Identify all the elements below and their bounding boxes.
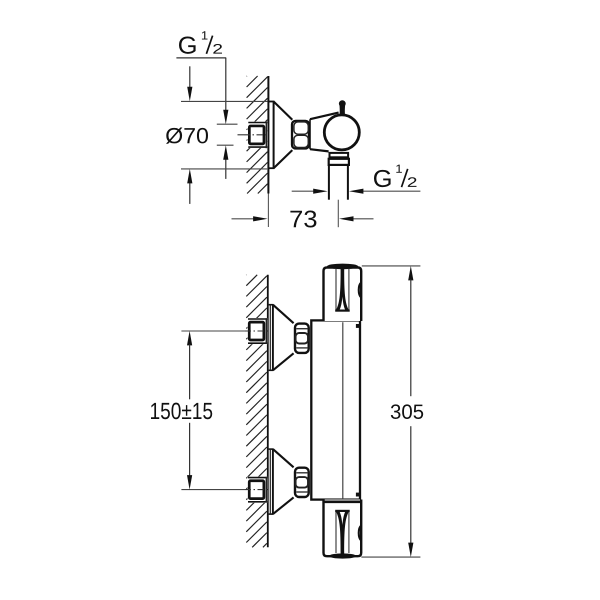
flange cone lines	[274, 102, 293, 120]
bottom cap side arc	[359, 526, 362, 541]
bottom cap lens	[329, 553, 356, 558]
shower outlet nut	[330, 153, 349, 157]
diameter 70 extension lines	[181, 100, 268, 102]
150 dimension extension/centrelines	[181, 330, 245, 332]
73 dimension	[232, 218, 255, 220]
top cap funnel groove	[336, 268, 349, 310]
dimension text 305	[391, 404, 423, 419]
top cap (handle)	[324, 268, 362, 322]
dimension text diameter 70	[166, 128, 208, 144]
hex nut (top view)	[292, 121, 309, 149]
lower wall union cylinder	[248, 477, 267, 479]
bar centre highlight line	[342, 322, 344, 498]
outlet G1/2 dimension arrows	[292, 190, 314, 192]
305 dimension line	[408, 266, 413, 281]
dimension label G 1/2 (outlet, right)	[374, 170, 391, 187]
nut bottom extension line	[217, 144, 234, 146]
bottom cap (handle)	[324, 500, 362, 557]
150 dimension line	[187, 331, 192, 346]
top cap lens	[327, 264, 358, 270]
wall union white mask	[248, 122, 268, 149]
wall hatching (top view)	[246, 75, 248, 77]
upper port mark	[356, 324, 360, 328]
wall (top view)	[267, 76, 269, 194]
top knob	[339, 100, 346, 107]
wall hatching (bottom view)	[245, 274, 247, 276]
upper wall union cylinder	[248, 318, 267, 320]
top cap side arc	[359, 282, 362, 297]
upper union square nut	[249, 322, 264, 340]
union square nut (top view)	[249, 126, 264, 144]
valve body (top view)	[309, 119, 311, 149]
lower hex nut	[295, 468, 309, 497]
inlet centreline (top view)	[238, 134, 245, 136]
escutcheon flange (top view)	[268, 101, 274, 103]
wall (bottom view)	[267, 275, 269, 548]
outlet pipe	[328, 165, 330, 200]
bottom cap channel	[335, 511, 337, 553]
G1/2 lower arrow pointing up at nut bottom	[225, 159, 227, 179]
upper hex nut	[295, 324, 309, 353]
wall extension line down to 73 dim	[267, 194, 269, 228]
dimension text 150 plus/minus 15	[151, 403, 212, 420]
lower port mark	[356, 493, 360, 497]
305 extension lines	[362, 265, 421, 267]
lower union square nut	[249, 481, 264, 499]
upper escutcheon flange	[269, 304, 274, 306]
dimension text 73	[290, 210, 316, 227]
bottom cap funnel groove	[336, 512, 349, 555]
wall union cylinder (top view)	[248, 122, 267, 124]
thermostat handle circle (top view)	[324, 115, 359, 150]
lower flange cone lines	[273, 449, 294, 467]
pipe centreline extension	[337, 200, 339, 228]
arrows	[189, 66, 191, 88]
main bar body	[311, 320, 360, 499]
dimension label G 1/2 (wall connection, top-left)	[179, 37, 196, 54]
lower escutcheon flange	[269, 448, 274, 450]
G1/2 leader underline and vertical leader with arrow to nut top	[176, 57, 226, 59]
top cap channel	[335, 269, 337, 311]
lower wall union white mask	[248, 477, 268, 503]
upper wall union white mask	[248, 318, 268, 344]
nut top extension line	[217, 123, 238, 125]
upper flange cone lines	[273, 305, 294, 324]
bottom cap joint band	[324, 500, 361, 503]
